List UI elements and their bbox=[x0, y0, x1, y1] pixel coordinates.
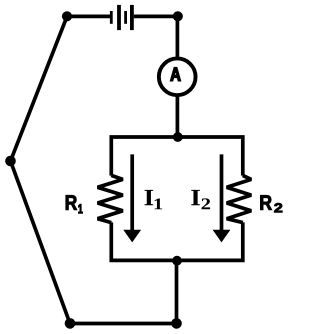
resistor R2 bbox=[227, 175, 252, 222]
wire diagonal left node to bottom-left node bbox=[11, 161, 71, 324]
wire bottom-right node up to parallel section bbox=[175, 260, 179, 323]
wire ammeter to junction node bbox=[176, 96, 180, 137]
wire bottom horizontal bbox=[70, 322, 177, 326]
battery B1 bbox=[110, 5, 134, 30]
node left junction bbox=[5, 156, 16, 167]
wire battery to top-right node bbox=[134, 15, 178, 19]
wire parallel section bottom rail bbox=[111, 222, 243, 260]
label R2 bbox=[260, 195, 282, 212]
label A bbox=[171, 68, 181, 81]
wire diagonal top-left to left node bbox=[11, 16, 68, 161]
wire top-right node down to ammeter bbox=[176, 16, 180, 58]
ammeter U1 bbox=[159, 58, 196, 95]
current arrow I1 bbox=[123, 154, 141, 242]
node bottom-left junction bbox=[65, 318, 76, 329]
wire parallel section top rail bbox=[111, 137, 243, 176]
node bottom-right junction bbox=[171, 318, 182, 329]
node parallel top junction bbox=[173, 132, 183, 142]
wire top-left horizontal to battery bbox=[67, 15, 110, 19]
label I2 bbox=[191, 190, 210, 209]
current arrow I2 bbox=[213, 154, 231, 242]
node top-left junction bbox=[62, 11, 72, 21]
label R1 bbox=[66, 195, 83, 213]
label I1 bbox=[145, 190, 163, 209]
resistor R1 bbox=[98, 175, 123, 222]
node top-right junction bbox=[173, 11, 183, 21]
node parallel bottom junction bbox=[172, 256, 182, 266]
